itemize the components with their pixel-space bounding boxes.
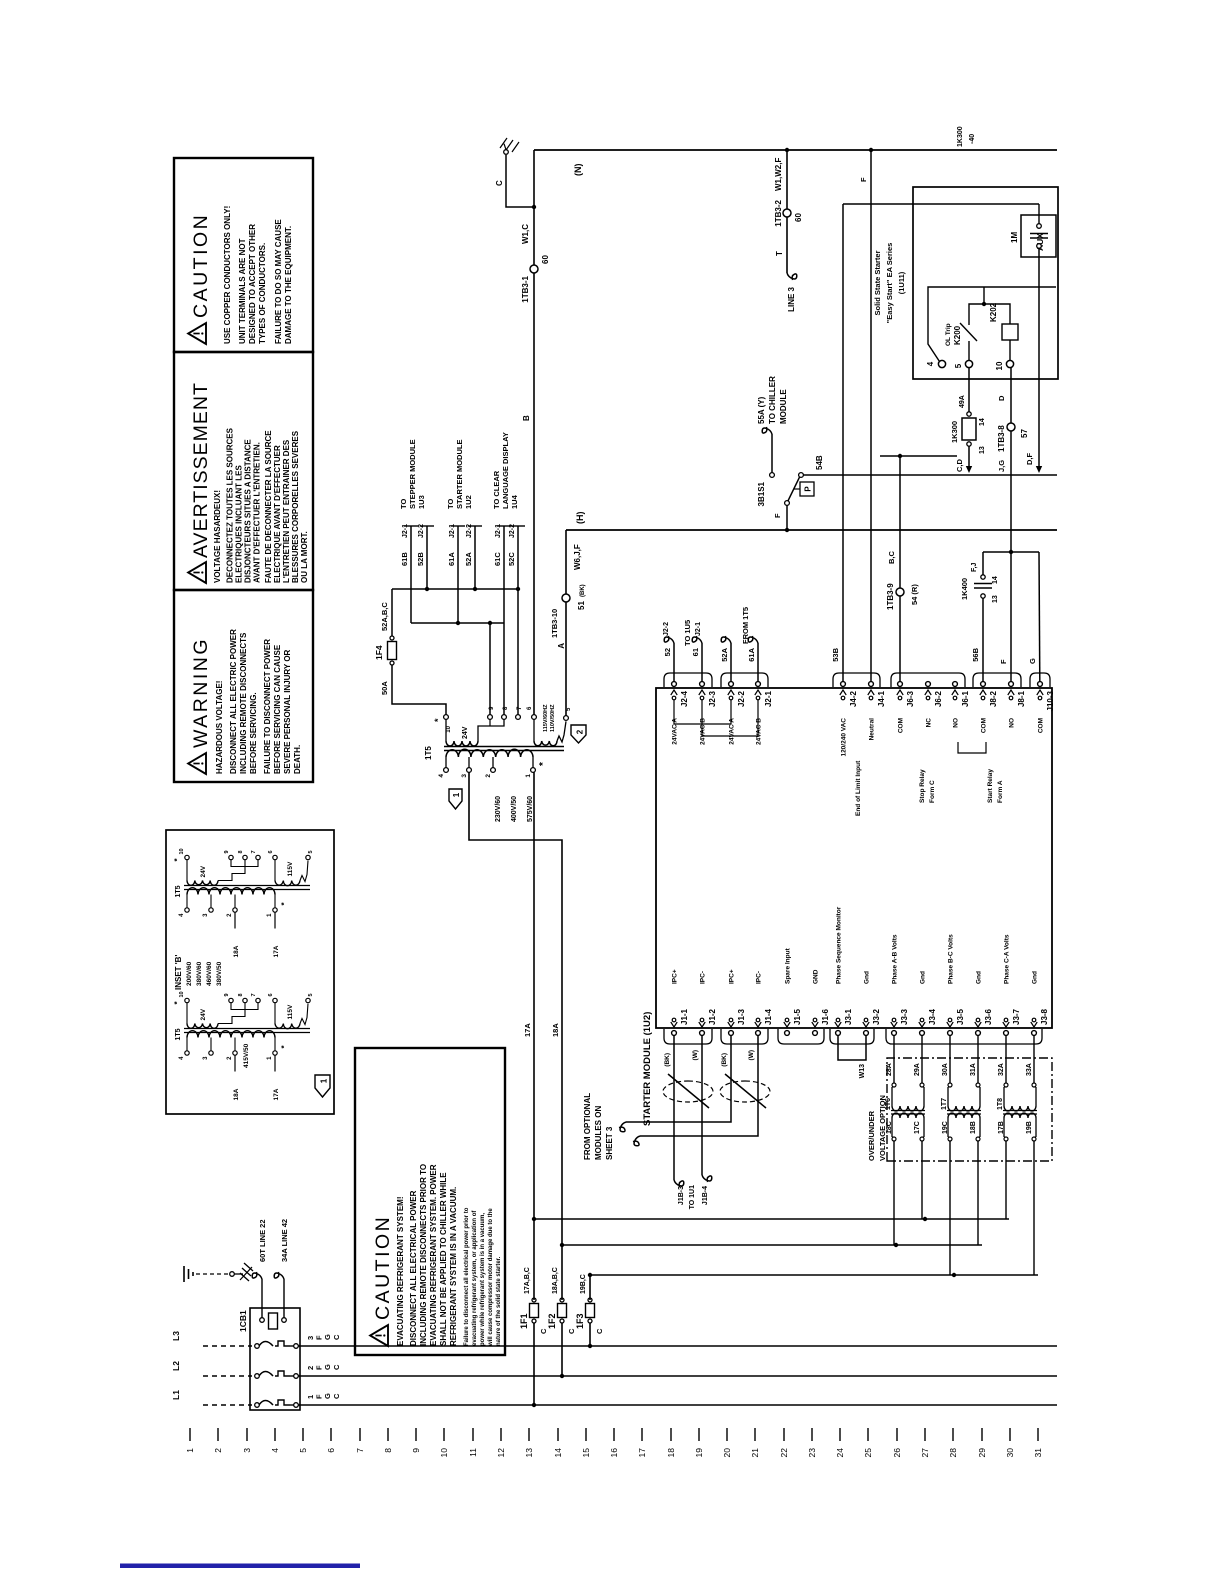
svg-text:Phase B-C Volts: Phase B-C Volts [948,934,955,984]
breaker 1CB1 pole L3 [255,1344,260,1349]
svg-text:3B1S1: 3B1S1 [757,481,766,506]
three-phase incoming line L1 (dashed) [203,1404,252,1406]
svg-text:LANGUAGE DISPLAY: LANGUAGE DISPLAY [501,432,510,509]
svg-text:18C: 18C [886,1121,893,1134]
svg-text:IPC-: IPC- [756,971,763,984]
svg-text:INSET 'B': INSET 'B' [174,955,183,990]
svg-text:OVER/UNDER: OVER/UNDER [867,1110,876,1161]
svg-text:B: B [522,415,531,421]
svg-text:18A: 18A [551,1023,560,1037]
wire 56B drop to J10-3 row [983,551,1039,553]
svg-text:1F4: 1F4 [374,645,384,660]
svg-text:51: 51 [577,601,586,610]
svg-text:28A: 28A [886,1063,893,1076]
svg-text:MODULES ON: MODULES ON [594,1106,603,1160]
svg-text:C: C [332,1334,341,1340]
svg-text:115V: 115V [287,861,294,876]
terminal 8 of 1T5 [502,715,507,720]
svg-text:VOLTAGE HASARDEUX!: VOLTAGE HASARDEUX! [213,490,222,583]
svg-text:J,G: J,G [997,460,1006,472]
svg-text:J1-3: J1-3 [737,1008,746,1025]
svg-text:TO 1U5: TO 1U5 [683,620,692,646]
connector pin J8-2 [981,682,986,687]
svg-text:1U3: 1U3 [417,495,426,509]
terminal 6 of 1T5 [532,715,537,720]
svg-text:13: 13 [979,446,986,454]
transformer 1T5 24V secondary winding [446,741,478,746]
svg-text:End of Limit Input: End of Limit Input [855,760,862,816]
svg-text:1TB3-10: 1TB3-10 [550,609,559,638]
svg-text:(BK): (BK) [664,1053,671,1067]
svg-text:3: 3 [203,913,209,917]
svg-text:C: C [332,1393,341,1399]
svg-text:52: 52 [663,648,672,656]
svg-text:26: 26 [892,1448,902,1458]
wire J1-1 (BK) to J1B-3 [673,1035,675,1180]
connector shell J3-3..J3-8 [886,1029,1042,1044]
wire J1-4 (W) from optional modules [640,1035,758,1136]
svg-text:F: F [999,659,1008,664]
svg-text:9: 9 [411,1448,421,1453]
svg-text:J3-7: J3-7 [1012,1008,1021,1025]
svg-text:F: F [773,513,782,518]
svg-text:FAILURE TO DISCONNECT POWER: FAILURE TO DISCONNECT POWER [263,639,272,774]
connector pin J3-1 [836,1031,841,1036]
three-phase incoming line L3 (dashed) [203,1345,252,1347]
svg-text:24VAC B: 24VAC B [700,718,707,745]
svg-text:19: 19 [694,1448,704,1458]
wire trip to 60T [261,1279,263,1318]
switch 3B1S1 output contact [799,473,804,478]
svg-text:9: 9 [224,993,230,996]
caution box evacuating refrigerant [355,1048,505,1355]
svg-text:DECONNECTEZ TOUTES LES SOURCES: DECONNECTEZ TOUTES LES SOURCES [226,427,235,583]
svg-text:28: 28 [948,1448,958,1458]
terminal 2 of 1T5 [491,768,496,773]
svg-text:P: P [804,486,813,492]
svg-text:3: 3 [203,1056,209,1060]
transformer 1T7 [947,1113,981,1115]
svg-text:1K300: 1K300 [957,126,964,147]
svg-text:LINE 3: LINE 3 [787,286,796,311]
svg-text:FROM 1T5: FROM 1T5 [741,607,750,644]
svg-text:J2-4: J2-4 [680,690,689,707]
svg-text:18: 18 [666,1448,676,1458]
wire 52A J2-2 from 1T5 [730,643,732,682]
svg-text:2: 2 [227,913,233,917]
wire A from terminal 5 to hot rail [565,530,567,716]
svg-text:J1-1: J1-1 [680,1008,689,1025]
svg-text:32A: 32A [998,1063,1005,1076]
blue margin mark [120,1564,360,1569]
svg-text:1T7: 1T7 [941,1098,948,1110]
connector pin J6-3 [898,682,903,687]
svg-text:C,D: C,D [955,459,964,473]
svg-text:33A: 33A [1026,1063,1033,1076]
svg-text:Gnd: Gnd [864,971,871,984]
fuse 1F3 19B,C circuit [588,1344,592,1348]
svg-text:11: 11 [468,1448,478,1457]
svg-text:USE COPPER CONDUCTORS ONLY!: USE COPPER CONDUCTORS ONLY! [223,206,232,344]
wire terminal 4 internal [928,287,1056,362]
svg-text:19B: 19B [1026,1121,1033,1134]
wire terminal 5 internal [969,287,984,314]
svg-text:56B: 56B [971,647,980,661]
svg-text:J1B-3: J1B-3 [678,1186,685,1205]
svg-text:J8-2: J8-2 [989,690,998,707]
svg-text:19B,C: 19B,C [580,1274,587,1294]
svg-text:J3-8: J3-8 [1040,1008,1049,1025]
svg-text:*: * [538,762,549,766]
svg-text:(N): (N) [573,164,583,177]
svg-text:K200: K200 [953,325,962,345]
svg-text:1CB1: 1CB1 [238,1310,248,1332]
svg-text:J10-3: J10-3 [1046,690,1055,711]
svg-text:MODULE: MODULE [779,389,788,424]
svg-text:J1-2: J1-2 [708,1008,717,1025]
svg-text:J3-4: J3-4 [928,1008,937,1025]
svg-text:COM: COM [1038,718,1045,733]
wire 61A J2-1 from 1T5 [757,643,759,682]
svg-text:1F3: 1F3 [575,1313,585,1329]
wire terminal 10 internal to K202 join [984,304,1010,324]
svg-text:17: 17 [637,1448,647,1458]
svg-text:57: 57 [1020,429,1029,438]
hot rail (H) [566,529,1057,531]
svg-text:1F2: 1F2 [547,1313,557,1329]
svg-text:DISCONNECT ALL ELECTRIC POWER: DISCONNECT ALL ELECTRIC POWER [229,629,238,774]
svg-text:7: 7 [251,993,257,996]
wire C ground tap [532,205,536,209]
svg-text:J1-6: J1-6 [821,1008,830,1025]
wire 50A from terminal 10 [392,665,446,714]
svg-text:Form C: Form C [929,780,936,803]
svg-text:30: 30 [1005,1448,1015,1458]
svg-text:1: 1 [452,792,461,797]
svg-text:COM: COM [898,718,905,733]
transformer 1T5 (inset) [184,889,310,891]
svg-text:REFRIGERANT SYSTEM IS IN A VAC: REFRIGERANT SYSTEM IS IN A VACUUM. [449,1187,458,1346]
svg-text:22: 22 [779,1448,789,1458]
svg-text:53B: 53B [831,647,840,661]
connector pin J4-1 [869,682,874,687]
connector pin J6-2 [926,682,931,687]
warning box WARNING [174,590,313,782]
wire 61C from terminal 8 [503,526,505,715]
terminal 1TB3-1 [530,265,538,273]
svg-text:W1,C: W1,C [521,224,530,244]
connector pin J3-8 [1032,1031,1037,1036]
svg-text:120/240 VAC: 120/240 VAC [841,718,848,757]
connector shell J8-2/J8-1 [973,673,1021,687]
svg-text:2: 2 [485,774,492,778]
svg-text:5: 5 [954,363,963,368]
svg-text:A: A [557,643,566,649]
wire J1-2 (W) to J1B-4 [701,1035,703,1175]
svg-text:J4-2: J4-2 [849,690,858,707]
wire 18C from 1T6 [893,1141,895,1245]
svg-text:2: 2 [213,1448,223,1453]
svg-text:1TB3-8: 1TB3-8 [997,425,1006,452]
svg-text:NC: NC [926,718,933,728]
svg-text:(1U11): (1U11) [897,271,906,294]
svg-text:IPC+: IPC+ [729,969,736,984]
svg-text:29: 29 [977,1448,987,1458]
svg-text:SHEET 3: SHEET 3 [605,1126,614,1160]
fuse 1F4 [390,661,394,665]
svg-text:D,F: D,F [1025,453,1034,466]
wire 18B from 1T7 [977,1141,979,1245]
svg-text:C: C [332,1364,341,1370]
svg-text:J2-1: J2-1 [764,690,773,707]
svg-text:F: F [859,177,868,182]
svg-text:115V/60HZ: 115V/60HZ [543,704,549,732]
svg-text:15: 15 [581,1448,591,1458]
svg-text:12: 12 [496,1448,506,1458]
svg-text:19C: 19C [942,1121,949,1134]
wire 52A,B,C from 1F4 [391,589,393,636]
svg-text:J2-2: J2-2 [418,524,425,538]
connector pin J8-1 [1009,682,1014,687]
svg-text:SEVERE PERSONAL INJURY OR: SEVERE PERSONAL INJURY OR [283,649,292,774]
svg-text:Gnd: Gnd [1032,971,1039,984]
svg-text:TYPES OF CONDUCTORS.: TYPES OF CONDUCTORS. [258,243,267,344]
svg-text:24V: 24V [462,726,469,739]
svg-text:1T5: 1T5 [175,885,182,897]
wire 54B rail [803,474,1057,476]
svg-text:Neutral: Neutral [869,718,876,741]
connector shell J4-2/J4-1 [833,673,880,687]
svg-text:C: C [595,1328,604,1334]
svg-text:1: 1 [320,1078,329,1083]
terminal 9 of 1T5 [488,715,493,720]
svg-text:1TB3-9: 1TB3-9 [886,583,895,610]
svg-text:DISCONNECT ALL ELECTRICAL POWE: DISCONNECT ALL ELECTRICAL POWER [409,1190,418,1346]
transformer 1T5 primary winding [446,749,533,757]
terminal 7 of 1T5 [516,715,521,720]
svg-text:1T6: 1T6 [885,1098,892,1110]
svg-text:10: 10 [995,361,1004,370]
svg-text:400V/50: 400V/50 [511,796,518,822]
tag 1 flag [449,789,462,809]
fuse 1F1 17A circuit [532,1403,536,1407]
earth ground symbol [183,1266,185,1282]
svg-text:ELECTRIQUES INCLUANT LES: ELECTRIQUES INCLUANT LES [235,465,244,583]
svg-text:50A: 50A [380,681,389,695]
svg-text:FAUTE DE DECONNECTER LA SOURCE: FAUTE DE DECONNECTER LA SOURCE [264,430,273,583]
svg-text:14: 14 [979,418,986,426]
wire 53B from J4-2 [842,204,844,682]
svg-text:BEFORE SERVICING.: BEFORE SERVICING. [249,692,258,774]
jumper W13 across J3-1 J3-2 [838,1035,866,1060]
svg-text:W6,J,F: W6,J,F [573,544,582,570]
svg-text:6: 6 [268,850,274,853]
svg-text:21: 21 [750,1448,760,1458]
terminal 5 of 1T5 [564,716,569,721]
wire 52C from terminal 7 [517,526,519,715]
connector pin J2-3 [700,682,705,687]
svg-text:power while refrigerant system: power while refrigerant system is in a v… [480,1213,486,1346]
connector shell J10-3 [1030,673,1050,687]
svg-text:*: * [280,902,289,906]
svg-text:DISJONCTEURS SITUES A DISTANCE: DISJONCTEURS SITUES A DISTANCE [244,439,253,583]
svg-text:3: 3 [242,1448,252,1453]
svg-text:5: 5 [298,1448,308,1453]
starter module 1U2 enclosure [656,688,1052,1028]
connector pin J1-5 [785,1031,790,1036]
svg-text:380V/60: 380V/60 [196,961,203,986]
solid state starter 1U11 enclosure [913,187,1058,379]
svg-text:25: 25 [863,1448,873,1458]
wire 30A to 1T7 [949,1035,951,1083]
svg-text:TO CHILLER: TO CHILLER [768,376,777,424]
svg-text:1: 1 [267,913,273,917]
bracket J2-3 to J2-1 internal [702,700,758,736]
svg-text:ELECTRIQUE AVANT D'EFFECTUER: ELECTRIQUE AVANT D'EFFECTUER [273,445,282,583]
svg-text:52A: 52A [464,552,473,566]
wire D,F from AUX to 54B rail [1038,248,1040,468]
svg-text:34A LINE 42: 34A LINE 42 [280,1219,289,1262]
connector pin J3-4 [920,1031,925,1036]
svg-text:1: 1 [185,1448,195,1453]
connector shell J6-3/J6-2/J6-1 [891,673,965,687]
svg-text:4: 4 [926,361,935,366]
svg-text:G: G [1028,658,1037,664]
svg-text:14: 14 [553,1448,563,1458]
svg-text:AVANT D'EFFECTUER L'ENTRETIEN.: AVANT D'EFFECTUER L'ENTRETIEN. [253,442,262,583]
ladder line numbers 1-31 with ticks [185,1428,1043,1457]
svg-text:31: 31 [1033,1448,1043,1458]
svg-text:110V/50HZ: 110V/50HZ [550,704,556,732]
connector pin J4-2 [841,682,846,687]
svg-text:STARTER MODULE: STARTER MODULE [455,440,464,509]
svg-text:(W): (W) [748,1050,755,1060]
svg-text:49A: 49A [959,395,966,408]
svg-text:24V: 24V [200,865,207,877]
wire 28A to 1T6 [893,1035,895,1083]
svg-text:7: 7 [251,850,257,853]
svg-text:54 (R): 54 (R) [910,584,919,605]
svg-text:10: 10 [179,991,185,997]
svg-text:415V/50: 415V/50 [243,1043,250,1068]
svg-text:10: 10 [179,848,185,854]
wire 32A to 1T8 [1005,1035,1007,1083]
neutral rail (N) [534,149,1057,151]
svg-text:TO 1U1: TO 1U1 [689,1185,696,1209]
svg-text:29A: 29A [914,1063,921,1076]
svg-text:52B: 52B [416,552,425,566]
svg-text:17A: 17A [273,1088,280,1100]
svg-text:8: 8 [238,850,244,853]
wire 61 net vertical [411,622,504,624]
bracket J2-4 to J2-2 internal [674,700,731,724]
svg-text:30A: 30A [942,1063,949,1076]
svg-text:1T5: 1T5 [175,1028,182,1040]
svg-text:61A: 61A [447,552,456,566]
svg-text:24V: 24V [200,1008,207,1020]
svg-text:"Easy Start" EA Series: "Easy Start" EA Series [885,243,894,324]
svg-text:3: 3 [461,774,468,778]
svg-text:J2-1: J2-1 [449,524,456,538]
terminal 1 of 1T5 [531,768,536,773]
wire 52B to stepper module [426,526,428,589]
svg-text:B,C: B,C [887,551,896,565]
svg-text:4: 4 [179,1056,185,1060]
svg-text:Phase A-B Volts: Phase A-B Volts [892,934,899,984]
svg-text:16: 16 [609,1448,619,1458]
wire 19C from 1T7 [949,1141,951,1275]
svg-text:J8-1: J8-1 [1017,690,1026,707]
bus L2 vertical run [299,1375,1057,1377]
svg-text:STEPPER MODULE: STEPPER MODULE [408,439,417,509]
fuse 1F2 18A circuit [560,1374,564,1378]
svg-text:L1: L1 [171,1390,181,1400]
svg-text:J2-2: J2-2 [737,690,746,707]
svg-text:1TB3-2: 1TB3-2 [774,199,783,226]
wire 52 J2-4 to 1U5 J2-2 [673,643,675,682]
svg-text:6: 6 [527,706,533,710]
connector shell J1-5/J1-6 [778,1029,824,1044]
svg-text:IPC-: IPC- [700,971,707,984]
connector pin J1-3 [729,1031,734,1036]
wire B,C from J6-3 with 1TB3-9 [899,456,901,682]
svg-text:INCLUDING REMOTE DISCONNECTS P: INCLUDING REMOTE DISCONNECTS PRIOR TO [419,1164,428,1346]
svg-text:IPC+: IPC+ [672,969,679,984]
svg-text:J2-2: J2-2 [466,524,473,538]
svg-text:OU LA MORT.: OU LA MORT. [300,531,309,583]
svg-text:17A,B,C: 17A,B,C [524,1267,531,1294]
svg-text:FROM OPTIONAL: FROM OPTIONAL [583,1093,592,1160]
svg-text:(BK): (BK) [580,584,586,597]
connector shell J2-4/J2-3 [664,673,712,687]
connector pin J3-7 [1004,1031,1009,1036]
connector pin J3-2 [864,1031,869,1036]
svg-text:J2-2: J2-2 [663,622,670,636]
svg-text:4: 4 [179,913,185,917]
connector pin J1-2 [700,1031,705,1036]
svg-text:1K400: 1K400 [960,578,969,600]
svg-text:14: 14 [992,576,999,584]
svg-text:Failure to disconnect all elec: Failure to disconnect all electrical pow… [464,1207,470,1346]
svg-text:18A: 18A [233,945,240,957]
circuit breaker 1CB1 enclosure [250,1308,300,1410]
svg-text:Solid State Starter: Solid State Starter [873,250,882,315]
terminal 1TB3-10 [562,594,570,602]
svg-text:5: 5 [308,850,314,853]
svg-text:OL Trip: OL Trip [945,323,952,346]
svg-text:10: 10 [446,725,452,732]
svg-text:52C: 52C [507,552,516,566]
svg-text:115V: 115V [287,1004,294,1019]
connector pin J3-3 [892,1031,897,1036]
svg-text:55A (Y): 55A (Y) [757,396,766,424]
svg-text:60T LINE 22: 60T LINE 22 [258,1219,267,1262]
wire 56B with contact 1K400 from J8-2 [982,598,984,681]
svg-text:BLESSURES CORPORELLES SEVERES: BLESSURES CORPORELLES SEVERES [291,430,300,583]
breaker 1CB1 shunt-trip element [260,1318,265,1323]
terminal 3 of 1T5 [467,768,472,773]
wire 52 net vertical [392,588,518,590]
wire 29A to 1T6 [921,1035,923,1083]
connector shell J2-2/J2-1 [721,673,768,687]
connector pin J3-6 [976,1031,981,1036]
bracket J6-1 NO to J8-2 COM internal [958,742,986,753]
connector pin J2-4 [672,682,677,687]
svg-text:EVACUATING REFRIGERANT SYSTEM.: EVACUATING REFRIGERANT SYSTEM. POWER [429,1164,438,1346]
wire 18 feeder vertical [562,1244,982,1246]
svg-text:J6-1: J6-1 [961,690,970,707]
chassis ground at 1TB3-1 [500,138,519,152]
